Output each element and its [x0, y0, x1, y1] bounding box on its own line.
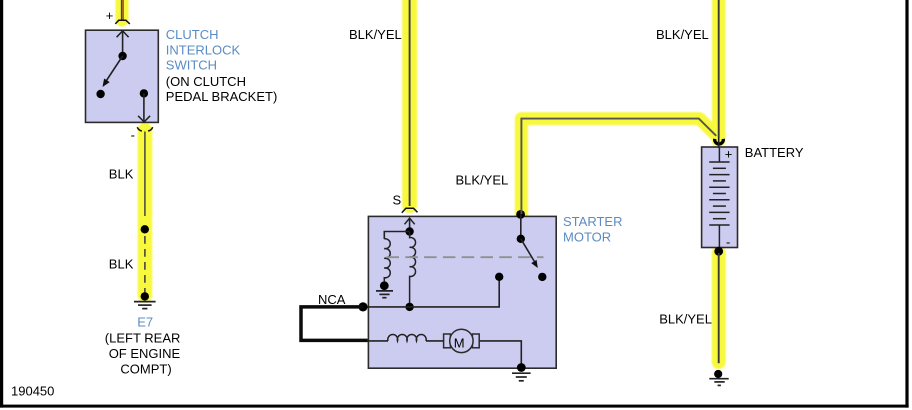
frame left border: [0, 0, 3, 408]
clutch switch output dot: [140, 89, 148, 97]
svg-text:BLK/YEL: BLK/YEL: [656, 27, 709, 42]
ground at starter bottom: [512, 363, 531, 381]
svg-text:BATTERY: BATTERY: [745, 145, 804, 160]
svg-text:E7: E7: [137, 315, 153, 330]
junction dot on BLK wire: [141, 225, 149, 233]
frame bottom border: [0, 405, 909, 408]
wire into armature branch: [368, 340, 389, 342]
svg-text:BLK/YEL: BLK/YEL: [349, 27, 402, 42]
svg-text:190450: 190450: [11, 383, 54, 398]
label BLK upper: [109, 167, 134, 182]
yellow highlight layer: [122, 0, 719, 362]
svg-text:-: -: [131, 128, 135, 143]
svg-text:BLK: BLK: [109, 257, 134, 272]
label (LEFT REAR OF ENGINE COMPT): [105, 331, 181, 377]
wire: top feed into clutch switch: [116, 0, 129, 20]
wire from coils to switch contact: [363, 277, 499, 307]
frame right border: [905, 0, 908, 408]
svg-text:M: M: [454, 335, 465, 350]
node S inner dot: [405, 227, 413, 235]
label E7: [137, 315, 153, 330]
label S terminal: [393, 192, 402, 207]
battery + label: [725, 147, 733, 162]
wire: clutch switch to E7 ground: [138, 130, 153, 295]
arrow into starter S terminal: [405, 218, 415, 232]
clutch switch contact dot: [96, 90, 104, 98]
clutch interlock switch box: [86, 30, 159, 122]
node battery feed dot at box top: [516, 210, 525, 219]
svg-text:NCA: NCA: [318, 292, 346, 307]
svg-text:BLK/YEL: BLK/YEL: [659, 311, 712, 326]
coil L1 hold-in winding: [384, 239, 390, 281]
ground bottom right: [709, 370, 728, 386]
wire center line battery to ground: [718, 253, 720, 363]
label BLK lower: [109, 257, 134, 272]
switch pivot dot: [517, 235, 525, 243]
switch contact dot right: [538, 273, 546, 281]
svg-text:STARTER: STARTER: [563, 214, 622, 229]
wire: BLK/YEL down to S terminal: [402, 0, 417, 206]
wire: BLK/YEL down to battery: [712, 0, 726, 141]
wire to pull-in coil: [384, 232, 409, 239]
ground E7: [134, 292, 156, 308]
label (ON CLUTCH PEDAL BRACKET): [166, 74, 277, 104]
svg-text:S: S: [393, 192, 402, 207]
svg-text:+: +: [106, 8, 114, 23]
svg-text:COMPT): COMPT): [120, 361, 171, 376]
mechanical linkage dashed line: [387, 256, 544, 258]
wire battery feed to switch pivot: [520, 214, 522, 238]
wire center line right BLK/YEL: [718, 0, 720, 138]
arrow out of clutch switch: [138, 93, 150, 122]
wire: battery to ground: [712, 253, 726, 362]
diagram number 190450: [11, 383, 54, 398]
svg-text:CLUTCH: CLUTCH: [166, 27, 219, 42]
svg-text:PEDAL BRACKET): PEDAL BRACKET): [166, 89, 277, 104]
wire junction into battery: [718, 137, 720, 148]
motor M1 armature: [444, 329, 480, 352]
label + (positive feed): [106, 8, 114, 23]
label BLK/YEL top middle: [349, 27, 402, 42]
starter motor box: [368, 216, 556, 368]
node NCA junction dot: [358, 302, 367, 311]
node battery negative dot: [714, 247, 723, 256]
svg-text:MOTOR: MOTOR: [563, 230, 611, 245]
svg-text:BLK/YEL: BLK/YEL: [456, 172, 509, 187]
wire center line of branch to battery: [521, 119, 716, 214]
label BLK/YEL bottom: [659, 311, 712, 326]
label CLUTCH INTERLOCK SWITCH: [166, 27, 241, 72]
wire red stripe of top feed: [122, 0, 124, 21]
svg-text:INTERLOCK: INTERLOCK: [166, 42, 241, 57]
connector at battery + terminal: [715, 139, 724, 144]
label BATTERY: [745, 145, 804, 160]
battery - label: [726, 234, 730, 249]
battery plates: [709, 148, 729, 248]
arrow into clutch switch: [117, 31, 129, 56]
wire: branch from starter motor to battery: [521, 119, 716, 217]
inductor field winding: [388, 335, 426, 341]
clutch switch blade with arrowhead: [103, 56, 123, 87]
svg-text:-: -: [726, 234, 730, 249]
solenoid switch arm with arrowhead: [521, 239, 538, 268]
svg-text:(ON CLUTCH: (ON CLUTCH: [166, 74, 246, 89]
node junction dot below coils: [405, 303, 413, 311]
ground inside starter: [376, 281, 393, 297]
svg-text:BLK: BLK: [109, 167, 134, 182]
wire center line BLK dashed: [144, 236, 146, 293]
svg-text:+: +: [725, 147, 733, 162]
label BLK/YEL at starter: [456, 172, 509, 187]
wire motor to ground: [479, 341, 521, 364]
contact dot left of switch: [495, 273, 503, 281]
connector at S terminal: [402, 208, 418, 212]
svg-text:(LEFT REAR: (LEFT REAR: [105, 331, 181, 346]
wire center line BLK of top feed: [121, 0, 123, 21]
clutch switch pivot dot: [118, 52, 126, 60]
coil L2 pull-in winding: [410, 232, 416, 307]
wire center line of middle BLK/YEL: [409, 0, 411, 206]
wire inductor to motor: [426, 340, 444, 342]
label - (negative terminal): [131, 128, 135, 143]
battery box: [702, 147, 738, 248]
wire NCA loop (thick): [301, 307, 368, 341]
svg-text:OF ENGINE: OF ENGINE: [109, 346, 181, 361]
label BLK/YEL top right: [656, 27, 709, 42]
svg-text:SWITCH: SWITCH: [166, 58, 217, 73]
wire center line BLK solid: [144, 132, 146, 217]
connector at clutch switch + terminal: [115, 20, 130, 24]
label STARTER MOTOR: [563, 214, 622, 244]
connector at clutch switch - terminal: [137, 127, 152, 131]
label NCA: [318, 292, 346, 307]
